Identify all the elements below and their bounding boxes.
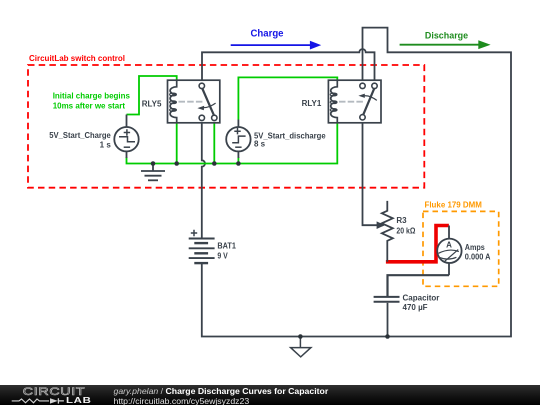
relay RLY5 pin bottom-right [212, 115, 217, 120]
green wire RLY5 bottom-right pin to rail [213, 121, 215, 164]
junction: RLY5 coil bottom on control rail [174, 161, 179, 166]
capacitor 470uF [374, 293, 440, 336]
svg-text:8 s: 8 s [254, 139, 266, 148]
red dashed enclosure "CircuitLab switch control" [28, 65, 424, 188]
V2 minus sign [235, 146, 241, 148]
battery BAT1 [189, 230, 237, 263]
svg-text:20 kΩ: 20 kΩ [396, 227, 416, 236]
V1 step waveform [119, 137, 135, 142]
svg-text:RLY5: RLY5 [142, 99, 162, 108]
relay RLY1 motion arrow [364, 96, 377, 101]
relay RLY1 [302, 80, 381, 123]
junction: capacitor on bottom rail [385, 334, 390, 339]
resistor R3 (potentiometer) [382, 201, 416, 262]
orange dashed enclosure "Fluke 179 DMM" [423, 211, 499, 286]
svg-text:BAT1: BAT1 [217, 241, 236, 250]
green wire V2 bottom to rail [237, 157, 239, 164]
junction: RLY5 contact pin on control rail [212, 161, 217, 166]
relay RLY1 pin top-right [372, 83, 377, 88]
relay RLY1 dashed link [339, 101, 365, 103]
wire discharge-net: RLY1 top-left pin over hump, right side down to bottom rail to battery minus [202, 28, 511, 337]
svg-text:5V_Start_Charge: 5V_Start_Charge [49, 131, 111, 140]
wire battery plus to RLY5 bottom-middle pin with hop over green rail [202, 121, 205, 239]
svg-text:9 V: 9 V [217, 252, 228, 261]
svg-text:1 s: 1 s [100, 141, 112, 150]
relay RLY1 pin top-left [360, 83, 365, 88]
relay RLY5 pin bottom-middle [199, 115, 204, 120]
svg-text:Fluke 179 DMM: Fluke 179 DMM [425, 200, 482, 210]
relay RLY5 [142, 80, 220, 123]
ammeter U-meter Amps [437, 226, 490, 276]
Charge arrow (blue) [231, 29, 322, 50]
relay RLY1 switch arm [363, 89, 374, 115]
relay RLY1 coil [331, 80, 338, 123]
svg-text:LAB: LAB [66, 395, 92, 404]
wire charge-net: RLY5 top pin to RLY1 top-right pin with hop [202, 49, 375, 83]
green wire V2 top to RLY1 coil top [238, 77, 337, 119]
green wire ground rail V1 bottom to RLY1 coil bottom [127, 123, 338, 164]
junction: ground tap on bottom rail [298, 334, 303, 339]
svg-text:Charge: Charge [251, 29, 284, 40]
svg-text:470 µF: 470 µF [403, 303, 428, 312]
junction: ground tap on control rail [151, 161, 156, 166]
relay RLY5 coil [170, 80, 177, 123]
V2 step waveform [232, 136, 245, 143]
ground (bar style) under switch-control rail [141, 164, 165, 181]
ammeter gauge arcs [439, 250, 459, 253]
svg-text:CircuitLab switch control: CircuitLab switch control [29, 53, 125, 63]
V1 minus sign [124, 146, 130, 148]
svg-text:R3: R3 [396, 216, 407, 225]
junction: V2 minus on control rail [236, 161, 241, 166]
ground (triangle style) on bottom rail [291, 337, 311, 357]
wire ammeter bottom to capacitor top [388, 275, 450, 296]
svg-text:Initial charge begins: Initial charge begins [53, 90, 131, 100]
svg-text:Amps: Amps [465, 243, 485, 252]
svg-text:RLY1: RLY1 [302, 99, 322, 108]
wiper arrowhead into R3 [377, 221, 385, 229]
relay RLY5 motion arrow [203, 103, 215, 108]
svg-text:0.000 A: 0.000 A [465, 253, 491, 262]
red wire R3 bottom to ammeter [386, 226, 449, 262]
ammeter needle [445, 250, 458, 262]
CircuitLab logo [0, 385, 115, 405]
relay RLY5 pin top [199, 83, 204, 88]
svg-text:Capacitor: Capacitor [403, 293, 440, 302]
voltage source V1 5V_Start_Charge [49, 115, 138, 159]
V1 plus sign [124, 129, 130, 135]
relay RLY5 dashed link [179, 101, 204, 103]
wire RLY1 bottom pin down to R3 wiper [363, 120, 378, 225]
svg-text:10ms after we start: 10ms after we start [53, 100, 125, 110]
svg-text:A: A [446, 240, 452, 249]
BAT1 plus sign [191, 230, 197, 236]
green wire V1 top to RLY5 coil top [127, 76, 177, 115]
footer bar [0, 385, 540, 405]
relay RLY1 pin bottom [360, 115, 365, 120]
green wire RLY5 coil bottom [176, 123, 178, 164]
svg-text:Discharge: Discharge [425, 30, 468, 41]
voltage source V2 5V_Start_discharge [226, 120, 326, 159]
V2 plus sign [234, 128, 240, 134]
Discharge arrow (green) [400, 30, 491, 49]
relay RLY5 switch arm [202, 89, 214, 116]
